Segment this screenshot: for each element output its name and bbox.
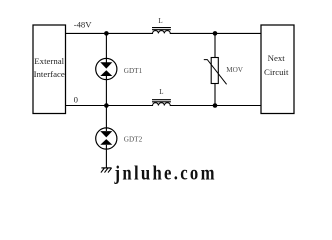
node C junction dot (-48V / MOV) [213,31,218,36]
svg-text:-48V: -48V [74,20,93,30]
svg-text:L: L [158,17,162,25]
svg-text:0: 0 [74,94,79,104]
wire MOV bottom to node D [214,84,216,106]
node B junction dot (0V / GDT1-GDT2) [104,103,109,108]
wire GDT1 bottom electrode to node B [105,76,107,106]
svg-text:L: L [159,88,163,96]
node A junction dot (-48V / GDT1) [104,31,109,36]
gas discharge tube GDT1 [96,58,117,79]
svg-text:jnluhe.com: jnluhe.com [114,162,215,185]
inductor L1 core bars [152,28,171,30]
wire node C to MOV top [214,33,216,57]
inductor L2 core bars [152,100,171,102]
wire GDT2 bottom electrode to ground [105,145,107,168]
wire node A to GDT1 top electrode [105,33,107,62]
next circuit block [261,25,294,114]
node D junction dot (0V / MOV) [213,103,218,108]
varistor MOV body [204,58,227,85]
ground (chassis) [101,168,112,173]
wire 0V rail with inductor coil bumps [66,103,262,106]
svg-text:MOV: MOV [226,66,244,74]
wire node B to GDT2 top electrode [105,106,107,132]
svg-text:GDT1: GDT1 [124,67,143,75]
svg-text:Interface: Interface [34,69,65,79]
svg-text:GDT2: GDT2 [124,135,143,143]
external interface block [33,25,66,114]
wire -48V rail with inductor coil bumps [66,31,262,34]
svg-text:External: External [34,56,64,66]
gas discharge tube GDT2 [96,128,117,149]
svg-text:Next: Next [268,53,286,63]
svg-text:Circuit: Circuit [264,67,289,77]
